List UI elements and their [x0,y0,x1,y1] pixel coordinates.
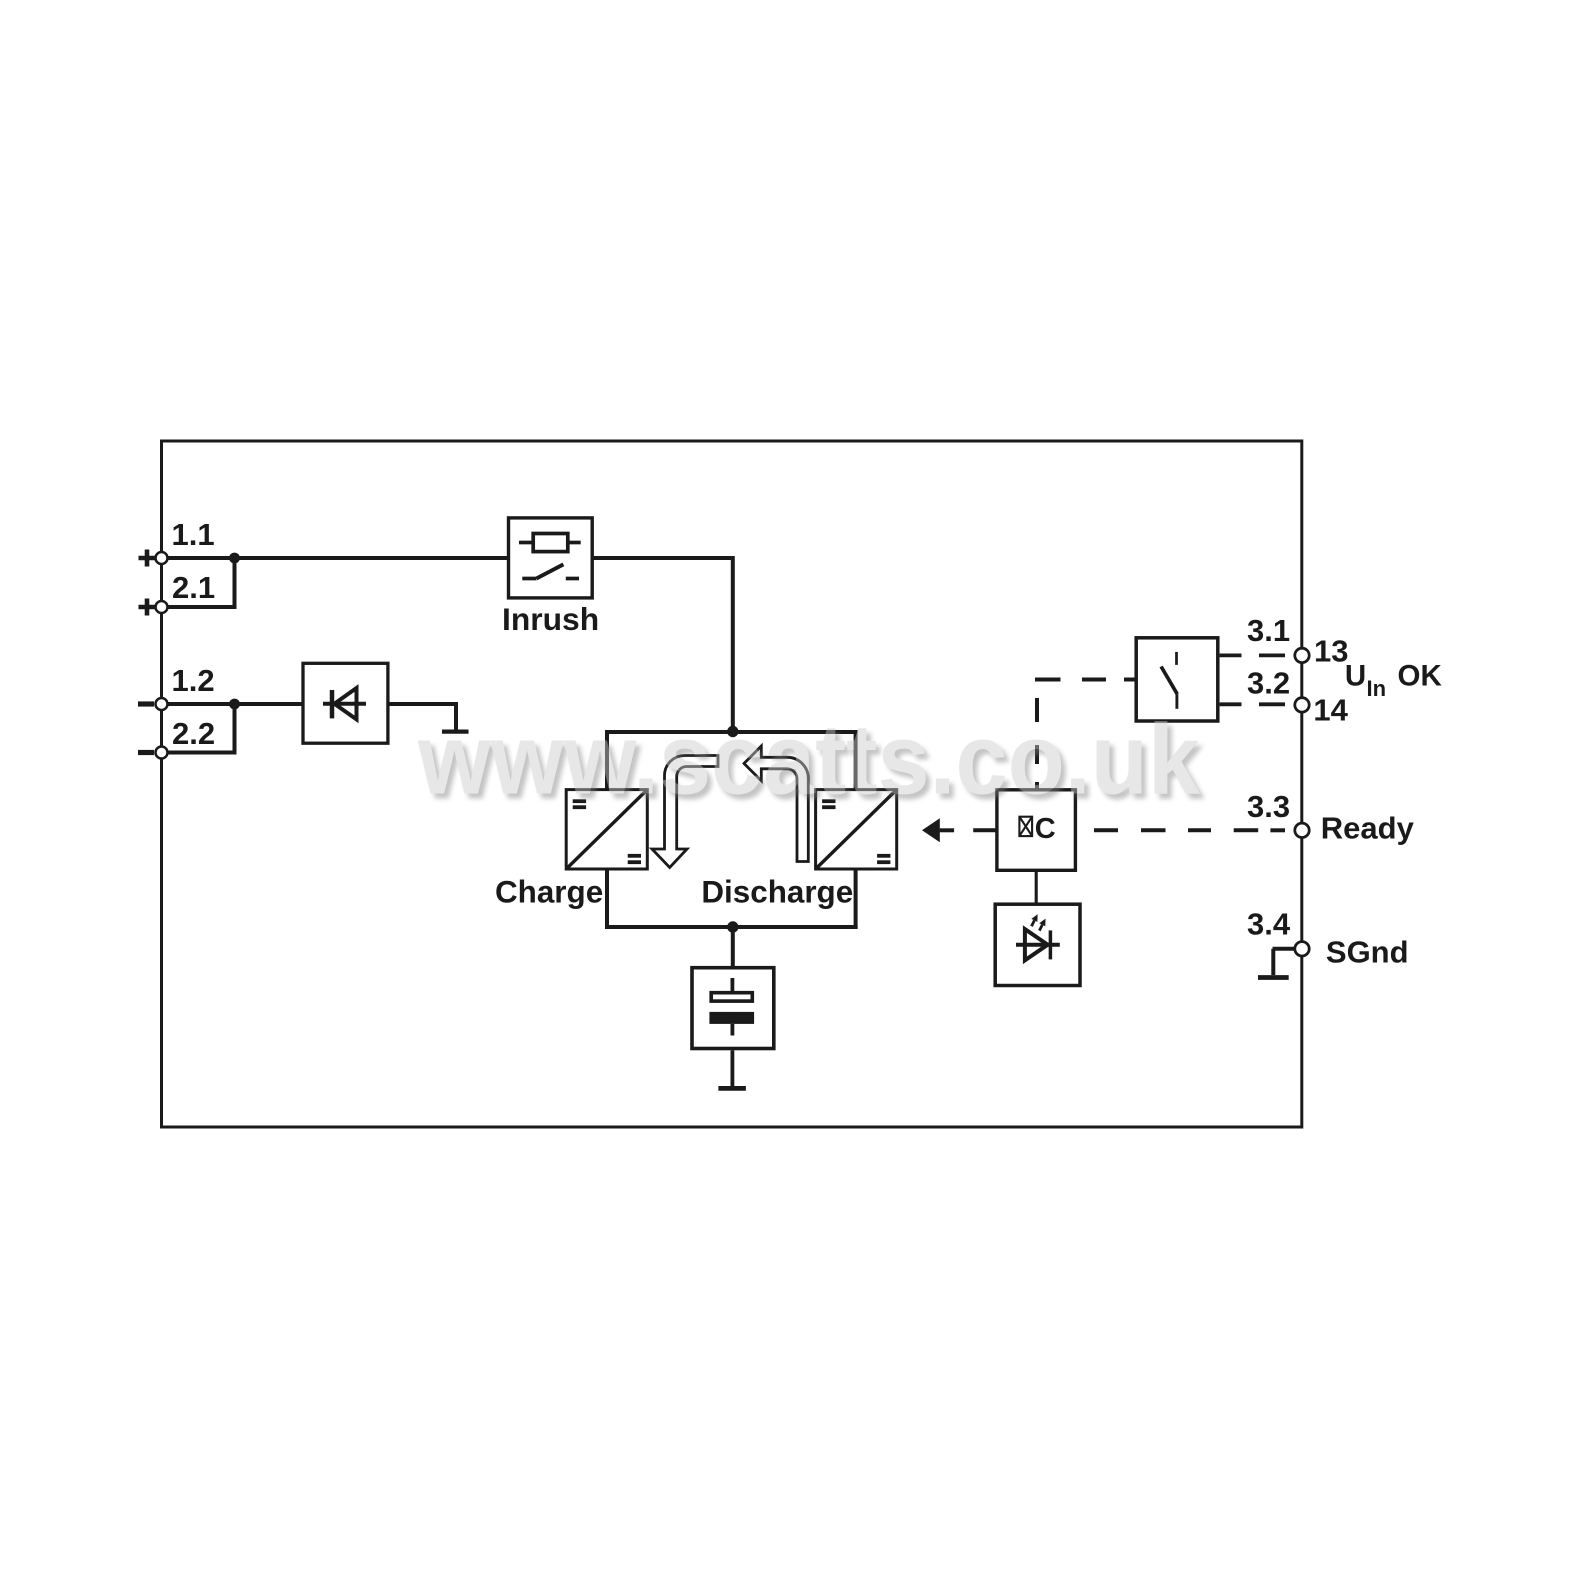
svg-text:OK: OK [1398,660,1443,693]
svg-text:2.2: 2.2 [172,716,215,751]
svg-text:Ready: Ready [1321,810,1415,845]
svg-text:3.4: 3.4 [1247,906,1291,941]
svg-text:3.1: 3.1 [1247,613,1290,648]
svg-text:www.scatts.co.uk: www.scatts.co.uk [417,704,1200,816]
svg-text:3.3: 3.3 [1247,789,1290,824]
svg-text:1.2: 1.2 [172,663,215,698]
svg-text:Charge: Charge [495,874,603,909]
svg-text:U: U [1345,660,1366,693]
svg-text:3.2: 3.2 [1247,666,1290,701]
svg-text:SGnd: SGnd [1326,934,1409,969]
svg-text:13: 13 [1314,633,1348,668]
svg-text:1.1: 1.1 [172,517,215,552]
svg-text:14: 14 [1313,693,1348,728]
svg-text:Discharge: Discharge [701,874,853,909]
svg-text:2.1: 2.1 [172,570,215,605]
svg-text:In: In [1367,676,1387,701]
svg-text:Inrush: Inrush [502,601,599,637]
